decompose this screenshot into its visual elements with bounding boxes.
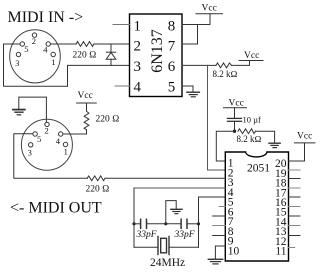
svg-text:1: 1 (134, 19, 142, 35)
U2 pin 12 stub (289, 235, 301, 237)
J2 pin 2 (45, 122, 49, 126)
wire J2 pin5 loop to R5 (14, 134, 87, 179)
U2 pin 8 stub (213, 225, 226, 227)
wire R5 to U2 pin3 (105, 177, 225, 179)
svg-text:Vcc: Vcc (244, 51, 259, 61)
wire R3 to ground G3 (256, 131, 275, 143)
ground G3 (269, 142, 280, 144)
power Vcc V4 bar (77, 102, 97, 104)
wire U1 pin6 to R2 (182, 64, 216, 66)
svg-text:4: 4 (134, 80, 142, 96)
ground G2 (13, 109, 25, 111)
diode D1 anode stem (110, 59, 112, 65)
connector J2 MIDI OUT ground wire (19, 97, 47, 122)
diode D1 cathode stem (110, 44, 112, 52)
J1 pin 4 (46, 42, 50, 46)
crystal Y1 left plate (157, 237, 159, 255)
J2 pin 3 (29, 143, 33, 147)
svg-text:220 Ω: 220 Ω (96, 115, 120, 125)
power Vcc V5 bar (294, 142, 315, 144)
J2 pin 4 (59, 132, 63, 136)
svg-text:Vcc: Vcc (229, 98, 244, 108)
svg-text:3: 3 (28, 148, 32, 158)
wire J2 pin4 to R4 (63, 130, 87, 134)
wire U2 pin 20 to Vcc V5 (289, 143, 305, 161)
wire J1 pin4 to R1 (51, 43, 77, 45)
U2 pin 19 stub (289, 169, 301, 171)
microcontroller U2 2051 body with notch (225, 152, 288, 261)
svg-text:6N137: 6N137 (149, 29, 166, 73)
svg-text:33pF: 33pF (174, 230, 195, 240)
wire C3 to node (234, 121, 236, 131)
resistor R1 220ohm zigzag (76, 42, 94, 47)
wire V3 to C3 (234, 108, 236, 118)
U2 pin 6 stub (219, 206, 225, 208)
wire J1 pin5 to left (4, 43, 21, 45)
svg-text:8: 8 (168, 19, 176, 35)
diode D1 triangle (106, 52, 116, 59)
op-amp U1 6N137 body (130, 14, 183, 97)
connector J1 MIDI IN DIN-5 shell (10, 30, 61, 83)
resistor R5 220ohm zigzag (87, 176, 105, 181)
svg-text:33pF: 33pF (136, 230, 157, 240)
node xtal left junction (132, 222, 135, 225)
U1 pin 1 stub NC (113, 24, 130, 26)
svg-text:Vcc: Vcc (202, 4, 217, 14)
U2 pin 17 stub (289, 187, 301, 189)
capacitor C2 33pF plates (180, 219, 182, 228)
svg-text:220 Ω: 220 Ω (86, 184, 110, 194)
wire cap row left (134, 223, 140, 225)
capacitor C3 10uF plates (228, 117, 242, 119)
power Vcc V1 bar (196, 13, 223, 15)
wire U2 pin4 to crystal column (134, 187, 225, 189)
svg-text:4: 4 (56, 136, 61, 146)
svg-text:2: 2 (32, 36, 36, 46)
ground G4 (208, 258, 222, 260)
wire U1 pin7 joins pin8 (182, 25, 198, 45)
crystal Y1 right plate (168, 237, 170, 255)
wire U1 pin5 to ground (182, 86, 193, 92)
ground G5 (171, 208, 182, 210)
svg-text:<- MIDI OUT: <- MIDI OUT (10, 200, 102, 217)
node xtal mid junction (164, 222, 167, 225)
wire cap row right (187, 223, 198, 225)
node reset junction dot (233, 130, 236, 133)
svg-text:4: 4 (43, 44, 48, 54)
svg-text:3: 3 (15, 58, 19, 68)
node xtal right junction (197, 222, 200, 225)
svg-text:2: 2 (134, 39, 142, 55)
svg-text:7: 7 (168, 39, 176, 55)
svg-text:11: 11 (275, 246, 286, 258)
J1 pin 5 (20, 42, 24, 46)
U1 pin 4 stub NC (115, 85, 130, 87)
wire left loop down and to 6N137 pin3 (4, 44, 130, 86)
svg-text:1: 1 (51, 57, 55, 67)
U2 pin 7 stub (213, 215, 226, 217)
wire node U1 pin6 down to U2 pin2 (208, 65, 226, 170)
resistor R2 8.2k zigzag (216, 63, 232, 68)
J2 pin 1 (63, 142, 67, 146)
crystal Y1 body (161, 238, 167, 253)
svg-text:220 Ω: 220 Ω (73, 51, 97, 61)
ground G1 (187, 91, 200, 93)
U2 pin 10 wire to ground G4 (215, 246, 225, 259)
svg-text:10 µf: 10 µf (243, 114, 262, 124)
capacitor C1 33pF plates (140, 219, 142, 228)
svg-text:Vcc: Vcc (297, 131, 312, 141)
wire xtal ground tap (166, 201, 176, 224)
power Vcc V3 bar (224, 107, 247, 109)
svg-text:8.2 kΩ: 8.2 kΩ (213, 69, 238, 79)
wire cap row middle (147, 223, 181, 225)
diode D1 cathode bar (106, 51, 115, 53)
svg-text:10: 10 (228, 246, 240, 258)
resistor R3 8.2k zigzag (238, 129, 256, 134)
wire crystal left (134, 246, 158, 248)
svg-text:2: 2 (45, 126, 49, 136)
svg-text:5: 5 (37, 134, 41, 144)
connector J2 MIDI OUT DIN-5 shell (21, 119, 72, 170)
svg-text:5: 5 (168, 80, 176, 96)
svg-text:8.2 kΩ: 8.2 kΩ (237, 134, 262, 144)
J1 pin 3 (16, 52, 20, 56)
U2 pin 18 stub (289, 178, 301, 180)
svg-text:2051: 2051 (247, 162, 270, 174)
power Vcc V2 bar (239, 60, 263, 62)
wire node to U2 pin1 (216, 131, 234, 161)
U2 pin 15 stub (289, 206, 301, 208)
svg-text:1: 1 (64, 146, 68, 156)
U2 pin 13 stub (289, 225, 301, 227)
J1 pin 2 (32, 33, 36, 37)
wire left xtal vertical (133, 188, 135, 247)
wire U2 pin5 to crystal column (199, 196, 226, 198)
U2 pin 11 stub (289, 247, 295, 249)
wire right xtal vertical (198, 197, 200, 247)
svg-text:MIDI IN ->: MIDI IN -> (8, 9, 84, 26)
wire R1 to 6N137 pin2 (94, 43, 130, 45)
svg-text:3: 3 (134, 59, 142, 75)
wire R2 to Vcc V2 (232, 61, 250, 66)
U2 pin 14 stub (289, 215, 301, 217)
wire U1 pin8 to Vcc (182, 14, 210, 25)
resistor R4 220ohm vertical zigzag (84, 109, 89, 130)
svg-text:5: 5 (24, 44, 28, 54)
svg-text:Vcc: Vcc (78, 91, 93, 101)
J1 pin 1 (51, 52, 55, 56)
J2 pin 5 (33, 132, 37, 136)
wire R4 to Vcc V4 (86, 103, 88, 109)
U2 pin 16 stub (289, 196, 301, 198)
svg-text:6: 6 (168, 59, 176, 75)
wire crystal right (169, 246, 198, 248)
svg-text:24MHz: 24MHz (150, 257, 185, 269)
U2 pin 9 stub (213, 235, 226, 237)
